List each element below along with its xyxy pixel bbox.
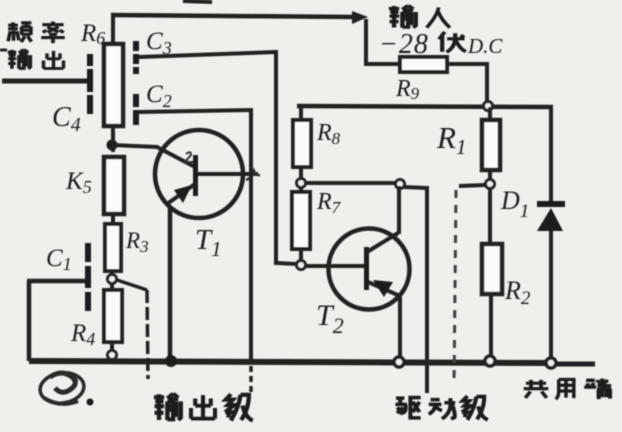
resistor R9 — [400, 57, 447, 72]
input arrowhead — [352, 11, 368, 24]
svg-text:R2: R2 — [504, 276, 531, 309]
wire: R4 leads — [110, 284, 114, 290]
svg-text:C4: C4 — [52, 102, 81, 136]
svg-text:C2: C2 — [146, 81, 172, 111]
svg-text:D.C: D.C — [467, 34, 503, 58]
svg-text:K5: K5 — [65, 168, 92, 197]
wire: T1 emitter down to rail — [168, 206, 173, 356]
resistor R8 — [293, 120, 311, 167]
text 频率 — [8, 22, 31, 42]
T1 emitter with arrow — [167, 184, 195, 204]
terminal circle R2 bottom — [485, 356, 495, 366]
node: junction circle T2 collector — [396, 180, 405, 189]
wire: left input wire to C4 — [2, 79, 87, 84]
wire: collector node right then down (crosses rail) — [404, 187, 427, 393]
T1 pin mark 2 — [185, 152, 193, 162]
capacitor C2 plate — [133, 94, 139, 125]
wire: R7 leads — [299, 188, 303, 192]
wire: C2 line stub below rail — [249, 366, 253, 393]
resistor R2 — [482, 244, 502, 294]
wire: mid horizontal rail — [297, 106, 553, 107]
left edge tick — [0, 49, 7, 52]
junction dot under R6 — [107, 140, 118, 151]
svg-text:D1: D1 — [500, 186, 529, 222]
wire: D1 to bottom rail — [549, 231, 553, 358]
resistor R1 — [482, 120, 500, 170]
svg-text:−28: −28 — [379, 29, 429, 60]
wire: R3 bottom lead — [110, 271, 114, 274]
resistor R6 — [104, 44, 123, 126]
node: junction circle R8/R7 — [297, 179, 306, 188]
svg-text:C3: C3 — [146, 28, 172, 58]
node: circle R7 bottom — [297, 261, 306, 270]
wire: R9 right to mid rail — [448, 64, 487, 101]
wire: top rail to input arrow — [111, 15, 356, 17]
wire: drop from arrow to R9 — [366, 19, 399, 64]
wire: R3/R4 junction right then down (crosses rail) — [117, 280, 147, 290]
terminal circle R4 bottom — [108, 351, 117, 360]
resistor R3 — [105, 224, 121, 271]
resistor R4 — [104, 290, 122, 342]
text 共用端 — [524, 380, 549, 398]
top edge mark — [183, 1, 212, 2]
svg-text:R7: R7 — [316, 189, 342, 217]
capacitor C1 plate — [85, 243, 91, 311]
svg-text:R4: R4 — [70, 320, 95, 349]
diode D1 — [537, 201, 565, 231]
transistor T1 — [155, 130, 243, 218]
wire: base wire dot to T1 — [112, 145, 158, 147]
capacitor C4 plate — [87, 54, 93, 114]
wire: T1 collector to right — [197, 172, 258, 176]
terminal circle common — [546, 358, 556, 368]
resistor R7 — [292, 192, 310, 249]
resistor K5 — [104, 157, 124, 214]
wire: R1 bottom lead — [488, 170, 492, 179]
text 驱动级 — [395, 398, 420, 418]
wire: T2 base wire — [306, 264, 365, 268]
svg-text:R1: R1 — [436, 120, 466, 159]
wire: junction to T2 collector node — [306, 181, 395, 185]
wire: R2 bottom lead — [489, 294, 493, 356]
wire: junction down to R2 — [488, 189, 492, 244]
node: junction circle R3/R4 — [108, 275, 117, 284]
svg-text:R3: R3 — [125, 228, 149, 256]
wire: R1 top lead — [488, 107, 492, 120]
wire: T2 emitter down to rail — [398, 297, 402, 357]
wire: C2 right then down to rail (T1 collector line) — [139, 110, 251, 361]
transistor T2 — [329, 229, 410, 310]
wire: C1 left wire — [27, 279, 85, 284]
wire: right branch down to D1 — [549, 107, 553, 202]
capacitor C3 plate — [133, 41, 139, 74]
wire: R6 top lead — [111, 15, 115, 44]
svg-text:R8: R8 — [316, 120, 341, 148]
wire: K5 to R3 — [111, 214, 115, 224]
svg-text:R9: R9 — [395, 76, 420, 103]
terminal circle T2 emitter — [394, 357, 404, 367]
text 输出 (left) — [8, 49, 31, 68]
junction dot T1 emitter/rail — [165, 355, 177, 367]
T2 emitter with arrow — [368, 282, 400, 296]
wire: R8 top lead — [297, 106, 301, 120]
svg-text:T1: T1 — [195, 224, 222, 261]
svg-text:T2: T2 — [316, 299, 344, 338]
wire: bottom rail — [29, 361, 546, 363]
wire: bottom-left loop up — [27, 281, 32, 361]
text 输入 — [389, 6, 416, 28]
node: junction circle R1 bottom — [486, 180, 495, 189]
wire: R8 bottom lead — [299, 167, 303, 178]
text 伏 — [439, 32, 466, 52]
svg-text:R6: R6 — [80, 20, 105, 48]
wire: T2 collector up to junction — [397, 186, 401, 234]
wire: C3 to T2 base column — [139, 52, 297, 264]
wire: R1 bottom junction left + dashed drop — [459, 185, 486, 186]
text 输出级 — [154, 394, 181, 420]
node: junction circle R9/mid-rail — [484, 102, 493, 111]
svg-text:C1: C1 — [46, 245, 72, 274]
bottom-left stamp blob — [38, 370, 86, 406]
wire: R6 bottom to dot — [111, 126, 115, 152]
